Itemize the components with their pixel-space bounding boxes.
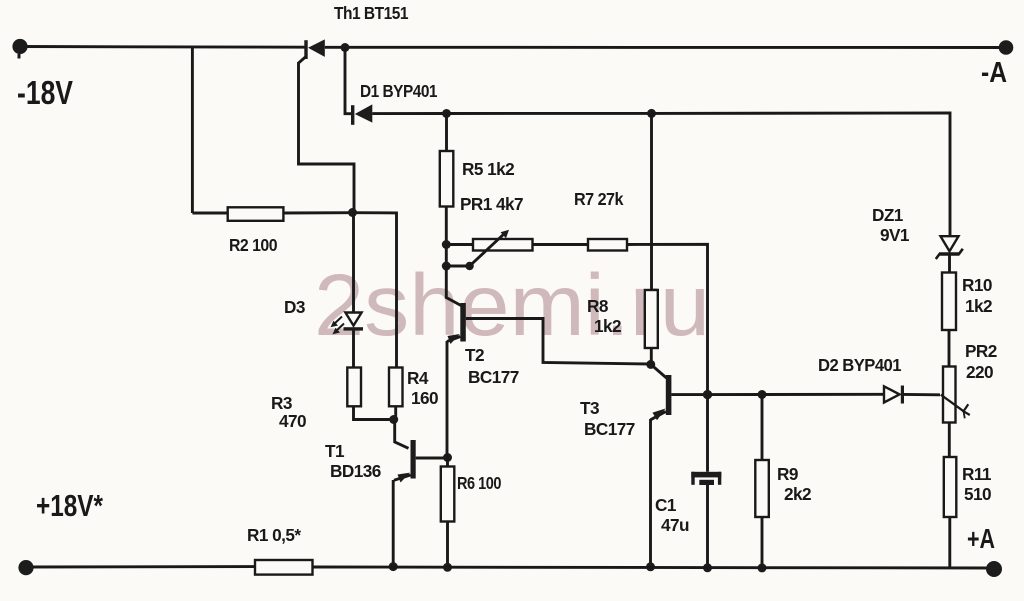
wire Th1 gate (299, 57, 355, 211)
wire T1 base (416, 457, 448, 460)
wire T3 emitter down (649, 419, 652, 567)
wire D3 to R3 (352, 330, 355, 367)
resistor R7 (588, 239, 627, 251)
wire R2 right lead (283, 211, 352, 214)
zener DZ1 (936, 236, 963, 259)
wire D1 anode rail (372, 112, 446, 115)
terminal -18V (12, 39, 27, 54)
resistor R3 (347, 368, 361, 407)
svg-text:Th1 BT151: Th1 BT151 (334, 3, 409, 23)
node T3 base / C1 (703, 390, 712, 399)
svg-text:R4: R4 (407, 368, 429, 388)
svg-text:2k2: 2k2 (784, 484, 811, 504)
capacitor C1 (691, 472, 721, 485)
node C1 rail (703, 563, 712, 572)
svg-text:R6 100: R6 100 (457, 473, 501, 493)
svg-text:1k2: 1k2 (594, 316, 621, 336)
svg-text:1k2: 1k2 (965, 296, 992, 316)
node R9 rail (758, 563, 767, 572)
wire PR1 to R7 (533, 243, 589, 246)
wire down to T2 collector (446, 266, 461, 306)
wire R5 top lead (445, 114, 448, 152)
wire C1 bottom lead (706, 485, 709, 568)
wire D1 rail to right (652, 113, 951, 236)
wire T3 base (671, 393, 707, 396)
diode D2 (884, 386, 904, 404)
wire R9 top lead (761, 395, 764, 461)
wire D1 cathode branch (345, 48, 351, 114)
svg-text:-18V: -18V (17, 74, 73, 111)
svg-text:-A: -A (981, 57, 1007, 89)
svg-text:470: 470 (279, 411, 306, 431)
svg-text:D1 BYP401: D1 BYP401 (360, 81, 438, 101)
diode D1 (351, 104, 372, 124)
node T1 emitter rail (389, 562, 398, 571)
wire junction down to D3 (352, 213, 355, 313)
svg-text:R5 1k2: R5 1k2 (462, 159, 514, 179)
wire R11 to rail (948, 517, 951, 568)
svg-text:PR2: PR2 (965, 341, 997, 361)
terminal +A (986, 561, 1002, 577)
wire T1 emitter down (392, 480, 395, 567)
wire junction to T1 collector (395, 420, 409, 449)
resistor R1 (255, 560, 313, 575)
svg-text:220: 220 (966, 362, 993, 382)
svg-text:R2 100: R2 100 (229, 235, 277, 255)
node PR1 left (442, 240, 451, 249)
svg-text:T2: T2 (465, 345, 484, 365)
node R3/R4 junction (389, 415, 398, 424)
svg-text:D2 BYP401: D2 BYP401 (818, 355, 902, 375)
svg-text:+18V*: +18V* (36, 488, 104, 523)
svg-text:+A: +A (967, 523, 995, 554)
wire T2 emitter down (446, 341, 449, 458)
svg-text:BC177: BC177 (584, 419, 635, 439)
transistor T2 (447, 303, 466, 344)
node R9 top (758, 390, 767, 399)
thyristor Th1 (304, 39, 325, 59)
wire bottom rail right (313, 567, 994, 568)
resistor R6 (441, 467, 455, 522)
svg-text:510: 510 (964, 484, 991, 504)
resistor R11 (944, 457, 957, 517)
svg-text:R10: R10 (962, 275, 992, 295)
svg-text:C1: C1 (655, 495, 677, 515)
node R6 rail (443, 563, 452, 572)
svg-text:BD136: BD136 (330, 461, 381, 481)
wire node to R6 (446, 458, 449, 467)
svg-text:D3: D3 (284, 297, 305, 317)
resistor R2 (228, 207, 284, 221)
wire R5 bottom lead (445, 207, 448, 245)
resistor R8 (645, 290, 658, 348)
wire D2 to PR2 wiper (904, 393, 940, 396)
svg-text:R7 27k: R7 27k (574, 189, 624, 209)
svg-text:47u: 47u (661, 515, 689, 535)
wire R4 bottom (394, 406, 397, 419)
svg-text:R1 0,5*: R1 0,5* (247, 525, 301, 545)
wire PR2 to R11 (948, 423, 951, 458)
wire DZ1 to R10 (948, 256, 951, 273)
node top rail junction (341, 43, 350, 52)
node T3 emitter rail (646, 562, 655, 571)
wire R6 to rail (446, 522, 449, 568)
wire R2 left lead (192, 212, 227, 215)
svg-text:PR1 4k7: PR1 4k7 (460, 194, 523, 214)
svg-text:9V1: 9V1 (880, 225, 910, 245)
potentiometer PR2 (943, 367, 956, 423)
wire top rail right (325, 46, 1006, 49)
svg-text:R8: R8 (587, 296, 609, 316)
resistor R9 (755, 460, 769, 517)
terminal +18V (18, 560, 33, 575)
svg-text:R9: R9 (777, 464, 798, 484)
resistor R10 (942, 273, 956, 331)
node wiper tie (442, 262, 451, 271)
svg-text:T1: T1 (325, 441, 345, 461)
transistor T1 (394, 440, 416, 483)
wire base node to R9 node (708, 393, 763, 396)
svg-text:BC177: BC177 (468, 367, 519, 387)
wire R10 to PR2 (948, 330, 951, 367)
svg-text:160: 160 (411, 388, 438, 408)
transistor T3 (651, 364, 672, 420)
node T1 base / R6 / T2 emitter (443, 453, 452, 462)
node gate/R2 junction (348, 208, 357, 217)
node R8 bottom / T3 collector (646, 360, 655, 369)
wire T2 base (466, 319, 651, 365)
wire R3 bottom to junction (354, 406, 394, 419)
wire D1 rail middle (447, 112, 652, 115)
watermark (314, 257, 710, 354)
resistor R5 (440, 151, 454, 207)
wire R8 bottom lead (650, 348, 653, 364)
svg-text:R3: R3 (271, 393, 292, 413)
node R5 top (442, 109, 451, 118)
wiper PR2 arrow (941, 395, 970, 419)
wire C1 top lead (706, 395, 709, 472)
wire top rail left (20, 45, 305, 49)
wire to D2 (762, 393, 884, 396)
LED D3 (331, 313, 364, 335)
potentiometer PR1 (446, 230, 532, 270)
wire R7 right to down (627, 244, 708, 392)
terminal -A (999, 40, 1014, 55)
wire R8 vertical (650, 113, 653, 290)
node R8 top (647, 109, 656, 118)
wire R9 bottom lead (761, 517, 764, 568)
svg-text:R11: R11 (962, 464, 992, 484)
wire junction to R4 branch (353, 213, 397, 368)
wire bottom rail left (26, 565, 255, 568)
svg-text:DZ1: DZ1 (872, 205, 904, 225)
resistor R4 (389, 368, 403, 407)
svg-text:T3: T3 (580, 398, 599, 418)
wire left branch vertical (191, 48, 194, 214)
wire PR1 left to wiper node (445, 245, 448, 267)
